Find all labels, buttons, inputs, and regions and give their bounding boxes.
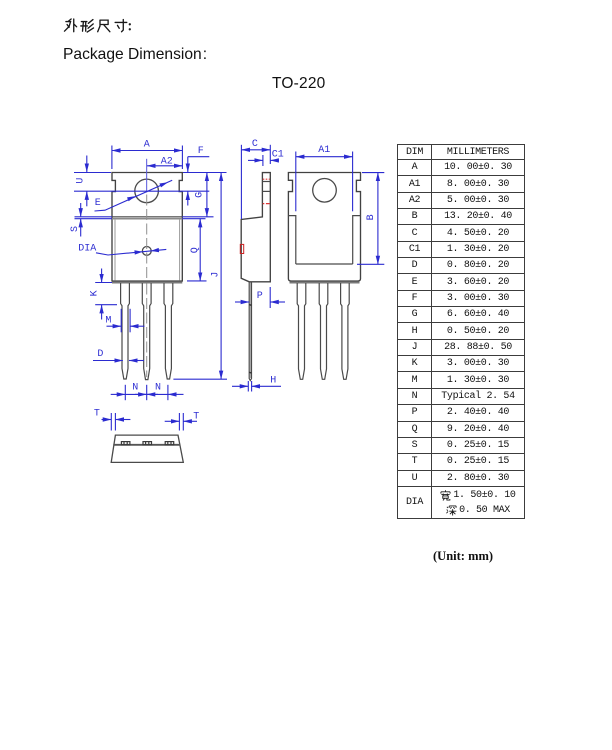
dimension T right tick outer bbox=[182, 413, 184, 431]
rear view lead 3 bbox=[341, 283, 350, 379]
bottom view lead section 1 bbox=[121, 442, 129, 445]
dimension Q extension bottom bbox=[187, 280, 207, 282]
side view tab line 2 bbox=[262, 190, 270, 192]
dimension U arrow upper bbox=[86, 156, 88, 173]
dimension A1 extension left bbox=[295, 152, 297, 212]
dimension T right tick inner bbox=[178, 413, 180, 431]
bottom view lead section 3 bbox=[165, 442, 174, 445]
dimension B extension top bbox=[362, 172, 384, 174]
glyph 寸 bbox=[115, 20, 127, 32]
svg-text:F: F bbox=[198, 146, 204, 157]
front view lead 3 bbox=[164, 283, 173, 379]
side view red mark rectangle bbox=[240, 244, 243, 253]
rear view lead 2 bbox=[319, 283, 328, 379]
dimension E leader tail bbox=[95, 180, 173, 211]
bottom view lead section 2 bbox=[143, 442, 152, 445]
dimension C line bbox=[241, 149, 270, 151]
hole centerline horizontal bbox=[74, 190, 209, 192]
bottom view outline bbox=[111, 435, 183, 462]
dimension T left arrow right bbox=[115, 419, 130, 421]
front view body bottom thick line bbox=[112, 282, 182, 284]
svg-text:N: N bbox=[155, 383, 161, 394]
side view lead mark lower bbox=[249, 371, 251, 374]
dimension DIA arrow left bbox=[134, 250, 142, 254]
dimension DIA leader bbox=[96, 249, 166, 255]
dimension D arrow right bbox=[129, 360, 144, 362]
top edge extension left bbox=[74, 172, 111, 174]
dimension S extension upper bbox=[75, 216, 113, 218]
side view lead bbox=[249, 282, 251, 381]
side view hidden hole bottom red dashes bbox=[263, 203, 270, 205]
dimension K extension lower bbox=[95, 304, 117, 306]
dimension K arrow upper bbox=[101, 269, 103, 283]
fullwidth colon bbox=[129, 23, 131, 30]
dimension C extension left bbox=[240, 145, 242, 219]
svg-text:B: B bbox=[366, 214, 377, 220]
svg-text:T: T bbox=[193, 412, 199, 423]
front view inner draft line left bbox=[114, 220, 116, 281]
svg-text:G: G bbox=[194, 192, 205, 198]
dimension J extension bottom bbox=[173, 378, 227, 380]
side view outline bbox=[241, 173, 270, 282]
dimension M arrow right bbox=[130, 325, 144, 327]
svg-text:K: K bbox=[89, 290, 100, 296]
dimension M arrow left bbox=[107, 325, 122, 327]
svg-text:A: A bbox=[144, 140, 150, 151]
dimension S extension right lower bbox=[182, 218, 205, 220]
front view lead 1 bbox=[121, 283, 130, 379]
dimension K arrow lower bbox=[101, 305, 103, 320]
dimension A extension left bbox=[111, 146, 113, 170]
svg-text:C1: C1 bbox=[272, 149, 284, 160]
dimension F bar bbox=[188, 156, 210, 158]
dimension P tick bbox=[269, 287, 271, 308]
top edge extension right bbox=[183, 172, 227, 174]
dimension N tick 3 bbox=[167, 385, 169, 400]
dimension C1 arrow right bbox=[270, 159, 279, 161]
dimension U arrow lower bbox=[86, 191, 88, 206]
side view tab line 1 bbox=[262, 181, 270, 183]
dimension B line bbox=[377, 173, 379, 265]
dimension F arrow upper bbox=[187, 157, 189, 172]
dimension H arrow right bbox=[252, 385, 281, 387]
glyph 形 bbox=[81, 20, 94, 32]
rear view lead 1 bbox=[297, 283, 306, 379]
front view small hole bbox=[142, 247, 151, 256]
rear view mounting hole bbox=[313, 179, 337, 203]
front view lead 2 bbox=[142, 283, 151, 380]
dimension E arrow upper-right bbox=[159, 182, 168, 187]
glyph 外 bbox=[64, 19, 76, 32]
dimension N line bbox=[125, 393, 168, 395]
svg-text:S: S bbox=[70, 226, 81, 232]
front view body outline bbox=[112, 173, 182, 282]
front view gray centerline body bbox=[146, 195, 148, 281]
dimension S arrow lower bbox=[80, 219, 82, 237]
dimension T left tick inner bbox=[114, 413, 116, 431]
dimension table bbox=[397, 144, 525, 519]
dimension B extension bottom bbox=[357, 263, 384, 265]
dimension N arrow mid right bbox=[147, 393, 158, 395]
rear view inner step right bbox=[353, 216, 361, 264]
dimension T left arrow left bbox=[102, 419, 112, 421]
dimension A1 extension right bbox=[352, 152, 354, 212]
svg-text:M: M bbox=[105, 315, 111, 326]
glyph 尺 bbox=[98, 20, 110, 32]
dimension J line bbox=[220, 173, 222, 380]
front view blue centerline upper bbox=[146, 159, 148, 193]
side view lead mark upper bbox=[249, 304, 251, 307]
svg-text:T: T bbox=[94, 409, 100, 420]
dimension N tick 1 bbox=[124, 385, 126, 400]
dimension T right arrow left bbox=[165, 420, 180, 422]
header chinese title 外形尺寸： bbox=[63, 13, 143, 33]
svg-text:U: U bbox=[76, 178, 87, 184]
rear view body bottom thick line bbox=[290, 282, 360, 284]
DIA depth line with glyph 深 bbox=[432, 503, 524, 518]
dimension H arrow left bbox=[232, 385, 248, 387]
dimension M extension left bbox=[120, 309, 122, 333]
svg-text:A1: A1 bbox=[318, 145, 330, 156]
side view hidden hole top red dashes bbox=[263, 178, 270, 180]
dimension N arrow mid left bbox=[135, 393, 147, 395]
package name TO-220 bbox=[272, 75, 325, 93]
dimension N arrow outer left bbox=[111, 393, 126, 395]
svg-text:H: H bbox=[270, 376, 276, 387]
unit note bbox=[433, 549, 493, 564]
front view mounting hole bbox=[135, 179, 159, 203]
svg-text:A2: A2 bbox=[161, 156, 173, 167]
svg-text:J: J bbox=[211, 272, 222, 278]
dimension H tick right bbox=[251, 381, 253, 392]
dimension K extension upper bbox=[95, 282, 112, 284]
dimension H tick left bbox=[247, 381, 249, 392]
front view tab-body boundary upper line bbox=[112, 216, 182, 218]
dimension S arrow upper bbox=[80, 203, 82, 217]
rear view inner step left bbox=[288, 216, 295, 264]
dimension N arrow outer right bbox=[168, 393, 184, 395]
svg-text:DIA: DIA bbox=[78, 244, 96, 255]
DIA width line with glyph 宽 bbox=[432, 488, 524, 503]
dimension C extension right bbox=[269, 145, 271, 164]
dimension N tick 2 bbox=[146, 385, 148, 400]
dimension DIA arrow right bbox=[151, 248, 159, 252]
dimension A2 line bbox=[147, 165, 182, 167]
svg-text:C: C bbox=[252, 139, 258, 150]
svg-text:N: N bbox=[132, 383, 138, 394]
dimension S extension lower bbox=[75, 218, 113, 220]
dimension C1 arrow left bbox=[248, 159, 263, 161]
dimension C1 tick bbox=[262, 155, 264, 166]
dimension G line bbox=[206, 173, 208, 217]
svg-text:E: E bbox=[95, 198, 101, 209]
rear view inner bottom line bbox=[296, 263, 353, 265]
front view inner draft line right bbox=[179, 220, 181, 281]
dimension Q line bbox=[199, 219, 201, 281]
dimension A1 line bbox=[296, 156, 353, 158]
svg-text:Q: Q bbox=[190, 247, 201, 253]
rear view outline bbox=[288, 173, 360, 282]
dimension T left tick outer bbox=[110, 413, 112, 431]
dimension A line bbox=[112, 150, 182, 152]
svg-text:D: D bbox=[97, 349, 103, 360]
dimension M extension right bbox=[129, 309, 131, 333]
side view lead inner gray bbox=[249, 283, 251, 379]
dimension P arrow right bbox=[270, 301, 285, 303]
dimension A extension right bbox=[181, 146, 183, 170]
dimension F arrow lower bbox=[187, 191, 189, 205]
dimension P arrow left bbox=[235, 301, 249, 303]
front view tab-body boundary lower line bbox=[112, 218, 182, 220]
dimension E arrow lower-left bbox=[127, 196, 136, 201]
dimension T right arrow right bbox=[183, 420, 197, 422]
header english title bbox=[63, 46, 207, 64]
dimension D arrow left bbox=[93, 360, 123, 362]
front view gray centerline lead bbox=[146, 284, 148, 378]
bottom view inner line bbox=[113, 444, 180, 446]
dimension S extension right upper bbox=[182, 216, 213, 218]
svg-text:P: P bbox=[257, 291, 263, 302]
